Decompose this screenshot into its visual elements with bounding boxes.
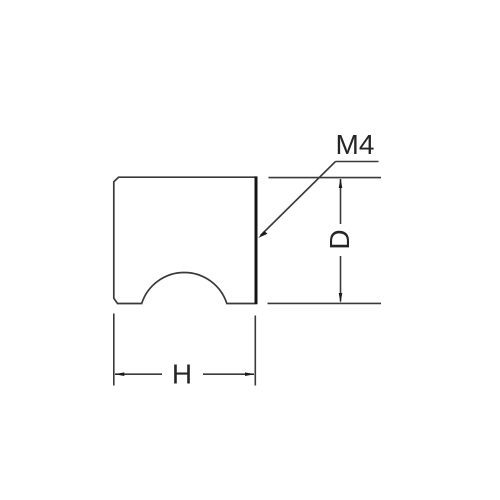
svg-text:M4: M4 xyxy=(336,129,375,160)
extension line top (D) xyxy=(269,177,382,179)
extension line left (H) xyxy=(113,314,115,386)
thick right edge (threaded face) xyxy=(255,176,258,304)
arrowhead H left xyxy=(115,372,125,376)
part outline (knob body with arch cutout) xyxy=(114,177,255,303)
arrowhead D top xyxy=(339,178,343,188)
extension line bottom (D) xyxy=(268,302,382,304)
leader arrowhead xyxy=(258,231,267,238)
leader underline for M4 xyxy=(336,161,379,163)
extension line right (H) xyxy=(254,316,256,386)
svg-text:H: H xyxy=(172,359,192,390)
arrowhead H right xyxy=(245,372,255,376)
dimension line H right segment xyxy=(203,373,254,375)
dimension line D upper segment xyxy=(340,179,342,224)
svg-text:D: D xyxy=(324,229,355,249)
dimension line H left segment xyxy=(115,373,162,375)
arrowhead D bottom xyxy=(339,293,343,303)
leader line to right edge xyxy=(261,162,336,236)
dimension line D lower segment xyxy=(340,256,342,302)
